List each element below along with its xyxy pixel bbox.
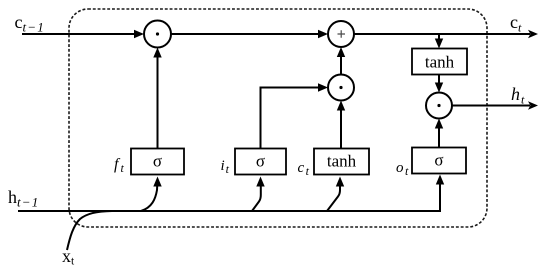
- svg-text:σ: σ: [434, 151, 443, 170]
- svg-text:tanh: tanh: [425, 53, 455, 72]
- svg-text:tanh: tanh: [327, 152, 357, 171]
- svg-text:σ: σ: [153, 152, 162, 171]
- svg-text:σ: σ: [256, 152, 265, 171]
